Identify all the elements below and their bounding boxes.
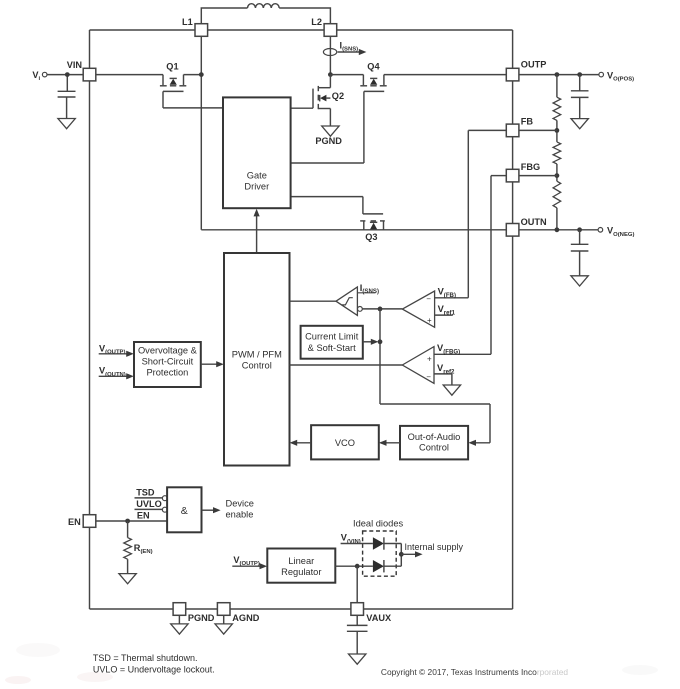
svg-text:EN: EN <box>68 517 81 527</box>
svg-text:Copyright © 2017, Texas Instru: Copyright © 2017, Texas Instruments Inco… <box>381 667 568 677</box>
svg-text:PGND: PGND <box>315 136 342 146</box>
svg-text:Protection: Protection <box>146 368 188 378</box>
svg-text:TSD: TSD <box>136 487 155 497</box>
svg-text:Q2: Q2 <box>332 91 344 101</box>
svg-text:Device: Device <box>226 499 254 509</box>
svg-text:VIN: VIN <box>67 60 83 70</box>
svg-text:+: + <box>427 316 432 325</box>
svg-text:FB: FB <box>521 117 534 127</box>
svg-text:Overvoltage &: Overvoltage & <box>138 346 198 356</box>
svg-text:Current Limit: Current Limit <box>305 331 359 341</box>
svg-text:Gate: Gate <box>247 170 267 180</box>
svg-text:Internal supply: Internal supply <box>405 542 464 552</box>
svg-text:UVLO = Undervoltage lockout.: UVLO = Undervoltage lockout. <box>93 665 215 675</box>
svg-text:Q3: Q3 <box>365 232 377 242</box>
svg-text:OUTN: OUTN <box>521 217 547 227</box>
svg-text:&: & <box>181 505 188 517</box>
svg-text:Control: Control <box>419 442 449 452</box>
svg-text:EN: EN <box>137 510 150 520</box>
svg-text:Control: Control <box>242 361 272 371</box>
svg-text:Q1: Q1 <box>166 61 178 71</box>
svg-text:−: − <box>426 294 431 303</box>
svg-text:Short-Circuit: Short-Circuit <box>142 357 194 367</box>
svg-text:FBG: FBG <box>521 162 540 172</box>
svg-text:L2: L2 <box>311 17 322 27</box>
svg-text:PWM / PFM: PWM / PFM <box>232 350 282 360</box>
svg-text:Out-of-Audio: Out-of-Audio <box>408 432 461 442</box>
svg-text:Linear: Linear <box>288 556 314 566</box>
svg-text:−: − <box>426 373 431 382</box>
svg-text:Regulator: Regulator <box>281 567 321 577</box>
svg-text:UVLO: UVLO <box>136 499 162 509</box>
svg-text:Driver: Driver <box>244 181 269 191</box>
svg-text:OUTP: OUTP <box>521 59 547 69</box>
svg-text:L1: L1 <box>182 17 193 27</box>
svg-text:Ideal diodes: Ideal diodes <box>353 519 403 529</box>
svg-text:VAUX: VAUX <box>366 613 392 623</box>
svg-text:+: + <box>427 354 432 363</box>
svg-text:Q4: Q4 <box>367 61 380 71</box>
svg-text:enable: enable <box>226 510 254 520</box>
svg-text:VCO: VCO <box>335 438 355 448</box>
svg-text:& Soft-Start: & Soft-Start <box>308 343 356 353</box>
svg-text:PGND: PGND <box>188 613 215 623</box>
svg-text:AGND: AGND <box>232 613 259 623</box>
svg-text:TSD = Thermal shutdown.: TSD = Thermal shutdown. <box>93 653 198 663</box>
